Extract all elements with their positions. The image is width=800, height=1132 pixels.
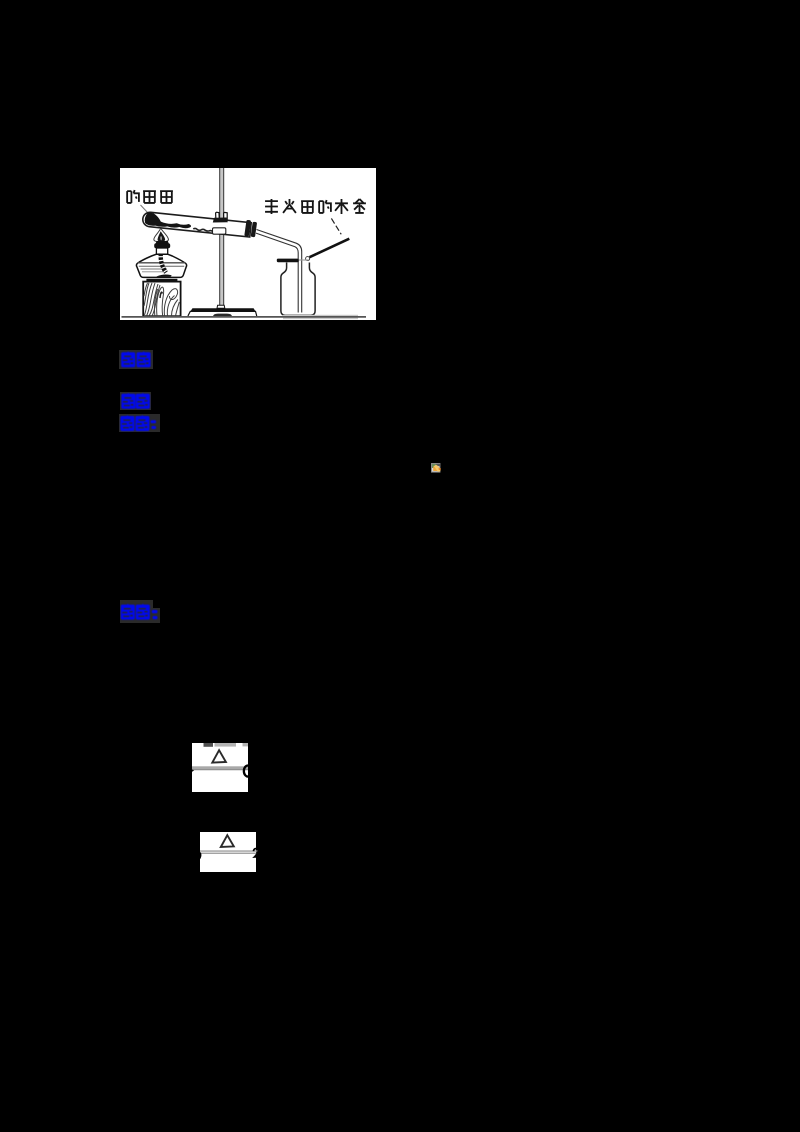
label 带火星的木条 (glowing splint) bbox=[265, 199, 366, 214]
rubber stopper at tube mouth bbox=[244, 220, 257, 238]
blue tag 2 (专题) bbox=[120, 392, 153, 411]
partial digit 2 at right edge bbox=[253, 849, 259, 857]
blue tag 4 (解答) bbox=[120, 599, 162, 624]
small broken-image icon bbox=[431, 463, 441, 473]
table line bbox=[283, 315, 358, 319]
reaction arrow bar bbox=[192, 766, 248, 770]
label 硝酸铜 (copper nitrate) bbox=[127, 190, 173, 203]
flame of alcohol lamp bbox=[154, 228, 169, 241]
delivery tube (bent glass tube) bbox=[256, 230, 302, 313]
white image background bbox=[120, 168, 376, 320]
stand base bbox=[188, 305, 256, 317]
residual gray marks along top edge bbox=[204, 743, 214, 747]
delta (heat) symbol bbox=[221, 835, 234, 847]
test tube bbox=[142, 212, 251, 237]
dashed pointer line from label to splint bbox=[331, 218, 341, 234]
alcohol lamp bbox=[136, 241, 186, 277]
clamp on stand bbox=[213, 212, 228, 222]
stand rod bbox=[220, 168, 224, 307]
equation image 1 (delta over arrow) bbox=[192, 743, 256, 792]
equation image 2 (delta over double line) bbox=[198, 832, 260, 872]
wood splint bbox=[310, 239, 350, 258]
partial letter C at right edge bbox=[244, 766, 249, 777]
glowing tip circle bbox=[306, 257, 310, 261]
pointer line from label to test tube bbox=[141, 205, 149, 214]
gas collecting bottle bbox=[281, 263, 315, 316]
wooden block bbox=[143, 279, 180, 316]
blue tag 1 (考点) bbox=[119, 350, 155, 370]
liquid lines bbox=[138, 262, 186, 264]
small black notch bottom-left bbox=[192, 770, 194, 772]
lab apparatus diagram image bbox=[120, 168, 376, 320]
double line (equals arrow) bbox=[200, 850, 258, 851]
delta (heat) symbol bbox=[212, 750, 226, 762]
glass cover plate on bottle bbox=[277, 259, 299, 263]
blue tag 3 (分析) bbox=[119, 414, 162, 433]
label rect on tube bbox=[213, 228, 226, 234]
copper nitrate solid inside tube bbox=[144, 212, 192, 229]
partial glyph at left edge bbox=[198, 853, 201, 860]
wick bbox=[161, 254, 166, 273]
